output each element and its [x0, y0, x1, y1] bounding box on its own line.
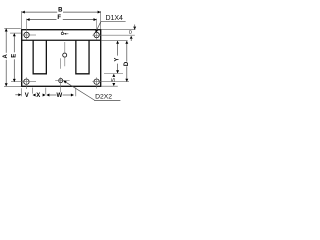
ctr D2 lower vertical above: [60, 58, 62, 69]
ext slot1 right down: [45, 88, 47, 95]
svg-text:B: B: [58, 8, 63, 14]
ext top edge right: [101, 29, 135, 31]
ext top-right corner up: [100, 11, 102, 29]
pilot hole at top center: [61, 32, 63, 34]
ctr TR hole horizontal + D ext: [92, 34, 134, 36]
svg-text:E: E: [12, 54, 18, 58]
hole D1 top-left: [24, 32, 29, 37]
hole D2 upper-center: [63, 53, 67, 57]
centerlines: [11, 19, 135, 93]
dimension C (right, window height): [117, 41, 119, 73]
ext slot bottom right: [104, 73, 123, 75]
hole D2 lower-center: [59, 79, 63, 83]
ctr D2 lower horizontal: [55, 80, 69, 82]
ext A top: [4, 27, 21, 29]
dimension W (bottom): [46, 94, 49, 97]
dimension G (right, slot bottom to part bottom): [112, 74, 115, 77]
pilot hole leader arrow: [64, 33, 66, 35]
svg-text:V: V: [25, 93, 29, 99]
ctr TR hole vertical / F ext: [96, 19, 98, 40]
window slot right: [76, 40, 89, 74]
hole D1 top-right: [94, 32, 99, 37]
dimension V (bottom): [15, 94, 18, 96]
dimension B: [22, 11, 100, 13]
svg-text:D: D: [124, 61, 130, 66]
svg-text:X: X: [36, 93, 40, 99]
dimension X (bottom): [33, 94, 36, 97]
svg-text:Y: Y: [115, 58, 121, 62]
ctr D2 lower vertical: [60, 77, 62, 92]
ext bottom edge right: [101, 85, 118, 87]
ctr D2 upper vertical below: [64, 57, 66, 66]
seam line (E/I joint): [22, 39, 101, 41]
dimension E: [13, 33, 15, 81]
svg-text:W: W: [56, 93, 62, 99]
ctr BR hole horizontal / ext to right dims: [92, 81, 129, 83]
part outline: [22, 30, 101, 87]
svg-text:F: F: [57, 15, 61, 21]
ext E top: [10, 32, 21, 34]
ext left edge down: [21, 88, 23, 96]
ctr BR hole vertical: [96, 77, 98, 88]
dimension A: [5, 29, 7, 86]
ext seam right: [101, 40, 127, 42]
dimension F: [27, 19, 97, 21]
ctr BL hole vertical: [25, 77, 27, 89]
ext A bottom: [4, 85, 21, 87]
extension lines: [4, 11, 135, 96]
ext top-left corner up: [21, 11, 23, 29]
dimension D (right, seam to bottom hole CL): [126, 41, 128, 82]
pilot hole stub centerline: [61, 30, 63, 32]
ctr TL hole horizontal: [23, 34, 36, 36]
ctr D2 upper vertical: [64, 42, 66, 53]
svg-text:D2X2: D2X2: [95, 94, 112, 101]
ctr BL hole horizontal / E ext: [11, 81, 36, 83]
hole D1 bottom-left: [24, 79, 29, 84]
ext slot1 left down: [32, 88, 34, 94]
ext slot2 left down: [75, 88, 77, 97]
window slot left: [33, 40, 46, 74]
hole D1 bottom-right: [94, 79, 99, 84]
svg-text:A: A: [3, 53, 9, 58]
svg-text:S: S: [111, 78, 117, 82]
ctr TL hole vertical / F ext: [26, 19, 28, 40]
